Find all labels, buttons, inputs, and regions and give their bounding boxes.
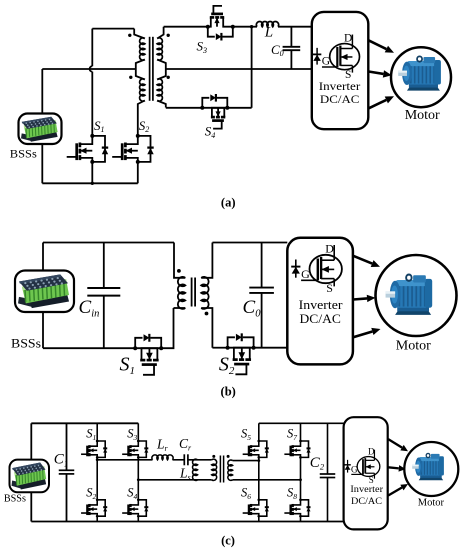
capacitor C1 (c) <box>66 423 68 470</box>
svg-text:S: S <box>326 281 333 295</box>
transformer T1 primary lower winding (a) <box>136 69 145 80</box>
transistor S2 (b) <box>245 358 251 361</box>
transformer T3 primary winding (c) <box>212 459 217 480</box>
wire top rail left (c) <box>31 422 138 424</box>
wire secondary bottom to S4 (a) <box>166 107 203 109</box>
battery pack icon (c) <box>12 463 47 490</box>
wire S2 drain riser (a) <box>138 101 145 136</box>
svg-text:Inverter: Inverter <box>299 297 344 312</box>
battery pack icon (a) <box>21 117 58 142</box>
polarity dot secondary (b) <box>205 312 209 316</box>
transformer T2 primary winding (b) <box>174 243 185 278</box>
wire S2 to inverter (b) <box>254 347 288 349</box>
wire resonant line A (c) <box>97 459 152 461</box>
transistor S2 (c) <box>89 500 97 505</box>
wire S5 drain (c) <box>258 423 260 441</box>
motor circle (c) <box>404 442 458 496</box>
wire battery positive (c) <box>30 423 32 459</box>
wire S1 to transformer (b) <box>161 308 173 348</box>
inductor Lr (c) <box>152 455 173 460</box>
wire bottom rail (a) <box>42 182 138 184</box>
node secondary top junction (c) <box>257 459 260 462</box>
node junction S3/S4 output (a) <box>250 25 253 28</box>
transformer T1 primary upper winding (a) <box>134 29 145 39</box>
wire secondary bottom to S2 (b) <box>212 347 227 349</box>
arrow inverter to motor middle (b) <box>353 298 367 299</box>
wire right bridge leg C (c) <box>258 457 260 500</box>
svg-text:BSSs: BSSs <box>10 146 37 160</box>
transistor S4 <box>221 116 225 119</box>
wire secondary top to S5/S6 mid (c) <box>233 460 259 462</box>
transistor S4 (c) <box>130 500 138 505</box>
wire S6 source (c) <box>258 516 260 521</box>
node B junction (c) <box>137 478 140 481</box>
transformer T1 secondary lower winding (a) <box>157 69 166 80</box>
transistor S1 (c) <box>89 441 97 446</box>
capacitor C2 (c) <box>327 423 329 474</box>
transistor S6 (c) <box>251 500 259 505</box>
svg-text:Motor: Motor <box>405 108 440 123</box>
capacitor C0 (b) <box>261 243 263 288</box>
wire Cr to tank top (c) <box>188 459 212 461</box>
inverter mosfet symbol (b) <box>310 255 342 283</box>
transformer T2 secondary winding (b) <box>201 243 212 278</box>
svg-text:D: D <box>344 32 352 44</box>
node A junction (c) <box>96 458 99 461</box>
wire S1 drain riser with hop (a) <box>91 29 93 67</box>
BSSs battery box (b) <box>15 271 74 313</box>
arrow inverter to motor bottom (b) <box>353 331 372 337</box>
wire S8 source (c) <box>300 516 302 521</box>
wire left bridge leg B (c) <box>137 457 139 500</box>
wire S4 output horizontal (a) <box>227 107 251 109</box>
battery pack icon (b) <box>18 274 69 308</box>
wire battery negative (a) <box>41 144 43 183</box>
svg-text:G: G <box>322 56 330 68</box>
wire S1 drain (c) <box>96 423 98 441</box>
motor icon (c) <box>412 453 444 480</box>
polarity dot upper primary (a) <box>128 34 131 37</box>
arrow inverter to motor bottom (a) <box>369 100 387 108</box>
capacitor C0 (a) <box>290 27 292 47</box>
arrow inverter to motor bottom (c) <box>388 488 402 496</box>
inverter mosfet symbol (a) <box>330 44 360 70</box>
transistor S3 (c) <box>130 441 138 446</box>
inverter mosfet symbol (c) <box>357 457 380 477</box>
svg-text:Inverter: Inverter <box>350 484 383 495</box>
capacitor Cin (b) <box>103 243 105 289</box>
inverter DC/AC block (c) <box>344 417 388 529</box>
wire center tap line left (a) <box>42 68 136 70</box>
polarity dot primary (c) <box>212 455 215 458</box>
wire top rail right (b) <box>212 242 287 244</box>
motor icon (b) <box>386 275 433 315</box>
capacitor Cr (c) <box>183 454 185 465</box>
wire secondary bottom to S7/S8 mid (c) <box>233 479 301 481</box>
inverter DC/AC block (b) <box>287 238 353 365</box>
svg-text:(c): (c) <box>221 533 235 547</box>
motor icon (a) <box>398 56 441 90</box>
transformer T3 secondary winding (c) <box>228 460 233 480</box>
svg-text:DC/AC: DC/AC <box>351 496 382 507</box>
wire S7 drain (c) <box>300 423 302 441</box>
BSSs battery box (a) <box>19 114 62 145</box>
svg-text:BSSs: BSSs <box>4 494 26 505</box>
svg-text:BSSs: BSSs <box>11 337 41 351</box>
wire S2 source (a) <box>137 162 139 183</box>
arrow inverter to motor middle (a) <box>369 72 384 74</box>
svg-text:(b): (b) <box>221 385 236 399</box>
transistor S1 (b) <box>153 359 159 362</box>
node secondary bottom junction (c) <box>299 478 302 481</box>
wire top rail (a) <box>92 28 134 30</box>
wire battery negative (b) <box>42 312 44 348</box>
polarity dot lower primary (a) <box>129 76 132 79</box>
transistor S3 <box>210 16 214 19</box>
node S1 source to rail (a) <box>91 162 93 183</box>
transformer T1 secondary upper winding (a) <box>157 27 163 39</box>
svg-text:Inverter: Inverter <box>319 79 361 93</box>
wire battery positive (a) <box>41 69 43 114</box>
svg-text:G: G <box>301 267 310 281</box>
arrow inverter to motor top (a) <box>369 40 387 49</box>
arrow inverter to motor top (b) <box>353 256 372 264</box>
svg-text:Motor: Motor <box>418 498 445 509</box>
BSSs battery box (c) <box>10 460 50 493</box>
wire bottom rail left (b) <box>43 347 135 349</box>
motor circle (a) <box>391 47 451 107</box>
wire resonant line B (c) <box>138 479 211 481</box>
svg-text:(a): (a) <box>221 196 236 210</box>
transformer T1 core (a) <box>149 37 151 101</box>
polarity dot primary (b) <box>177 269 181 273</box>
wire center return line (a) <box>166 68 312 70</box>
wire S3-S4 connector vertical (a) <box>251 27 253 108</box>
wire S3 to node (a) <box>233 26 252 28</box>
inductor Ls (c) <box>193 459 198 480</box>
wire left bridge leg A (c) <box>96 457 98 500</box>
svg-text:G: G <box>351 465 358 475</box>
inductor L (a) <box>252 26 257 28</box>
arrow inverter to motor top (c) <box>388 439 402 448</box>
transistor S7 (c) <box>293 441 301 446</box>
transistor S2 <box>125 136 137 144</box>
svg-text:D: D <box>368 446 375 456</box>
wire battery negative (c) <box>30 492 32 521</box>
wire battery positive (b) <box>42 243 44 271</box>
wire top rail right (c) <box>259 422 344 424</box>
arrow inverter to motor middle (c) <box>388 467 399 468</box>
svg-text:D: D <box>325 242 334 256</box>
svg-text:L: L <box>264 25 273 41</box>
wire top rail left (b) <box>43 242 174 244</box>
transformer T2 core (b) <box>191 278 193 307</box>
wire S2 source (c) <box>96 516 98 521</box>
wire Lr to Cr (c) <box>173 459 185 461</box>
wire secondary top to S3 (a) <box>164 26 208 28</box>
transistor S1 <box>80 136 92 144</box>
wire right bridge leg D (c) <box>300 457 302 500</box>
wire bottom rail (c) <box>31 521 343 523</box>
svg-text:Motor: Motor <box>396 338 431 353</box>
transistor S5 (c) <box>251 441 259 446</box>
transistor S8 (c) <box>293 500 301 505</box>
wire S4 source (c) <box>137 516 139 521</box>
transformer T3 core (c) <box>219 456 221 483</box>
inverter DC/AC block (a) <box>312 12 369 129</box>
polarity dot upper secondary (a) <box>167 34 170 37</box>
polarity dot secondary (c) <box>227 455 230 458</box>
polarity dot lower secondary (a) <box>167 76 170 79</box>
svg-text:DC/AC: DC/AC <box>300 311 341 326</box>
wire S3 drain (c) <box>137 423 139 441</box>
svg-text:DC/AC: DC/AC <box>320 92 360 106</box>
motor circle (b) <box>376 255 457 336</box>
